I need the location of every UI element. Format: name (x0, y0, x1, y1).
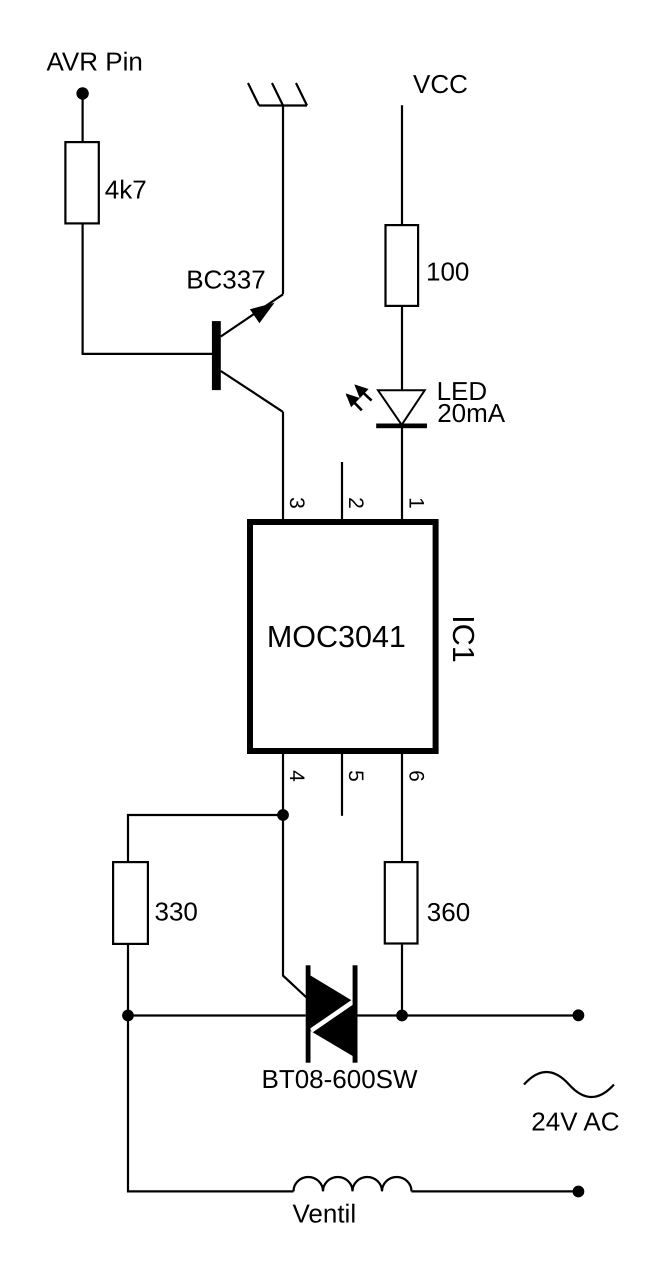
pin number 4 (285, 770, 308, 782)
node pin4 junction (277, 809, 289, 821)
value label 4k7 (105, 175, 147, 205)
wire R 100 to LED (401, 307, 403, 390)
resistor 360 (385, 862, 418, 943)
resistor 100 (386, 225, 419, 306)
gate wire to triac (283, 815, 308, 999)
label MOC3041 (267, 620, 406, 654)
chassis ground symbol (248, 83, 307, 106)
label AVR Pin (47, 47, 143, 77)
label Ventil (293, 1199, 357, 1229)
pin number 5 (344, 770, 367, 782)
LED D1 (376, 390, 427, 428)
IC1 MOC3041 box (250, 522, 436, 751)
value label 330 (155, 897, 198, 927)
node rail right end (573, 1009, 585, 1021)
label BC337 (186, 265, 266, 295)
svg-text:6: 6 (405, 770, 428, 782)
wire rail left segment (128, 1014, 306, 1016)
wire R 4k7 to base of Q1 (83, 225, 212, 354)
value label 100 (426, 257, 469, 287)
wire R 330 to rail (127, 945, 129, 1016)
wire pin 4 down (282, 754, 284, 815)
AC source sine symbol (524, 1072, 614, 1097)
wire pin 3 from transistor (282, 412, 284, 519)
wire pin 6 to R 360 (401, 754, 403, 861)
wire pin 5 stub (341, 754, 343, 816)
net label VCC (413, 69, 468, 99)
svg-text:100: 100 (426, 257, 469, 287)
pin number 1 (405, 497, 428, 509)
wire left branch down to bottom rail (128, 1016, 294, 1192)
wire VCC to R 100 (401, 105, 403, 224)
svg-text:MOC3041: MOC3041 (267, 620, 406, 654)
node AVR Pin (76, 87, 88, 99)
node left rail (122, 1010, 134, 1022)
label BT08-600SW (262, 1064, 419, 1094)
resistor 4k7 (65, 142, 98, 223)
svg-text:5: 5 (344, 770, 367, 782)
triac BT08-600SW (306, 965, 358, 1062)
svg-text:IC1: IC1 (446, 615, 480, 662)
wire pin 2 stub (341, 462, 343, 519)
svg-text:2: 2 (344, 497, 367, 509)
value label 360 (427, 897, 470, 927)
pin number 2 (344, 497, 367, 509)
label 24V AC (531, 1107, 619, 1137)
wire AVR pin to R 4k7 (81, 94, 83, 142)
LED light arrows (346, 384, 372, 410)
svg-text:3: 3 (285, 497, 308, 509)
transistor BC337 (212, 294, 283, 412)
wire emitter to chassis (282, 106, 284, 295)
wire rail right segment (358, 1014, 579, 1016)
svg-text:VCC: VCC (413, 69, 468, 99)
svg-text:4k7: 4k7 (105, 175, 147, 205)
wire LED to pin 1 (401, 428, 403, 519)
resistor 330 (113, 862, 148, 944)
inductor Ventil (294, 1177, 412, 1191)
svg-text:BC337: BC337 (186, 265, 266, 295)
wire R 360 to rail (401, 945, 403, 1016)
pin number 6 (405, 770, 428, 782)
node R360 rail (396, 1010, 408, 1022)
label LED 20mA (437, 376, 506, 428)
svg-text:24V AC: 24V AC (531, 1107, 619, 1137)
svg-text:1: 1 (405, 497, 428, 509)
svg-text:AVR Pin: AVR Pin (47, 47, 143, 77)
svg-text:330: 330 (155, 897, 198, 927)
wire node to R 330 (128, 815, 283, 861)
svg-text:20mA: 20mA (437, 398, 506, 428)
label IC1 (446, 615, 480, 662)
svg-text:Ventil: Ventil (293, 1199, 357, 1229)
svg-text:360: 360 (427, 897, 470, 927)
svg-text:4: 4 (285, 770, 308, 782)
svg-text:BT08-600SW: BT08-600SW (262, 1064, 419, 1094)
node bottom rail right end (573, 1186, 585, 1198)
wire inductor to right end (412, 1190, 579, 1192)
pin number 3 (285, 497, 308, 509)
